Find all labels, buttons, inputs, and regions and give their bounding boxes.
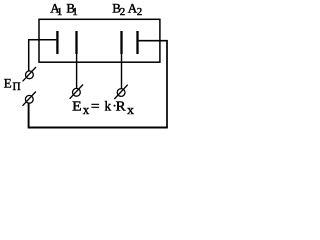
wire from plate A1 to upper left terminal (29, 40, 57, 71)
sensor body box (39, 19, 160, 62)
svg-text:П: П (13, 81, 21, 93)
svg-text:1: 1 (72, 6, 78, 18)
svg-text:1: 1 (57, 6, 63, 18)
wire from plate A2 right and down outer side (139, 41, 167, 128)
terminal (output right) (114, 85, 127, 99)
svg-text:x: x (83, 102, 90, 117)
svg-text:2: 2 (120, 6, 126, 18)
svg-text:R: R (116, 99, 127, 114)
svg-text:x: x (127, 102, 135, 117)
wire from plate B1 down to output terminal (76, 54, 78, 89)
electrode plate A1 (56, 31, 58, 54)
electrode plate B2 (120, 31, 122, 54)
terminal (lower left, supply) (23, 92, 36, 106)
terminal (upper left, supply) (23, 67, 36, 81)
svg-text:k: k (105, 99, 112, 114)
svg-text:E: E (72, 99, 82, 114)
terminal (output left) (70, 85, 83, 99)
svg-text:2: 2 (137, 6, 143, 18)
wire from plate B2 down to output terminal (121, 54, 123, 89)
electrode plate B1 (75, 31, 77, 54)
electrode plate A2 (136, 31, 138, 54)
bottom return wire to lower left terminal (29, 103, 168, 127)
svg-text:E: E (4, 75, 12, 90)
svg-text:=: = (91, 99, 100, 114)
